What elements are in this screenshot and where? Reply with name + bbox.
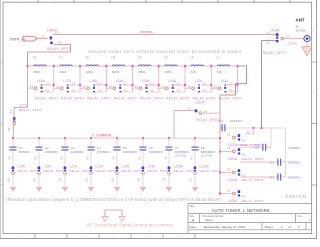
svg-text:RELAY_SPDT: RELAY_SPDT: [19, 108, 42, 112]
svg-text:Size: Size: [189, 215, 194, 218]
inductor L3 125N: [165, 65, 178, 66]
svg-text:56P,80DC: 56P,80DC: [288, 161, 301, 165]
wire cap to relay: [194, 151, 196, 167]
capacitor C6 150P,80DC: [140, 147, 147, 148]
wire bus to C5: [116, 138, 118, 146]
svg-text:3,6: 3,6: [82, 84, 86, 88]
ground for C3: [62, 187, 69, 192]
svg-text:3,6: 3,6: [161, 84, 165, 88]
wire relay throw bottom: [122, 91, 133, 93]
svg-text:D: D: [313, 29, 315, 33]
svg-text:RELAY_SPDT: RELAY_SPDT: [88, 96, 112, 100]
node junction 2: [79, 65, 81, 67]
svg-text:XG07CN: XG07CN: [285, 194, 306, 199]
wire monitor rail: [219, 95, 221, 138]
svg-text:RELAY_SPDT: RELAY_SPDT: [114, 96, 138, 100]
wire C_COMMON bus: [13, 137, 220, 139]
capacitor C11 56P,80DC: [240, 161, 277, 163]
wire cap to relay: [64, 151, 66, 167]
wire inductor chain top: [28, 65, 238, 67]
port XMTR_IN: [23, 36, 37, 41]
svg-text:RELAY_SPDT: RELAY_SPDT: [242, 178, 265, 182]
svg-text:RELAY_SPDT: RELAY_SPDT: [219, 96, 243, 100]
relay L23A select for C5: [116, 167, 119, 170]
wire ANT net vertical from output relay: [261, 41, 263, 129]
wire relay to inductor chain: [28, 45, 71, 67]
wire input to relay K17: [37, 38, 47, 40]
svg-text:C10: C10: [254, 146, 260, 150]
svg-text:Title: Title: [189, 204, 194, 208]
svg-text:4,5: 4,5: [87, 156, 90, 160]
svg-text:L323A: L323A: [228, 157, 238, 161]
wire bus to C8: [194, 138, 196, 146]
svg-text:<Doc>: <Doc>: [205, 218, 214, 222]
capacitor C10 47P,80DC: [240, 146, 262, 148]
node junction 5: [158, 65, 160, 67]
svg-text:L15A: L15A: [116, 79, 125, 83]
wire relay to bus: [12, 125, 14, 139]
svg-text:L325A: L325A: [228, 199, 238, 203]
wire output relay lower throw: [262, 40, 276, 42]
wire relay to ANT jack: [281, 37, 284, 40]
svg-text:4,5: 4,5: [266, 41, 270, 45]
wire relay throw bottom: [95, 91, 106, 93]
wire relay throw bottom: [174, 91, 185, 93]
svg-text:BYPASS: BYPASS: [141, 30, 153, 34]
svg-text:RELAY_SPDT: RELAY_SPDT: [47, 47, 71, 51]
svg-text:L1: L1: [216, 56, 220, 60]
node junction 4: [132, 65, 134, 67]
inductor L7 200N: [60, 65, 73, 66]
node junction 3: [105, 65, 107, 67]
wire relay to ground: [90, 174, 92, 187]
svg-text:L17A: L17A: [63, 79, 72, 83]
svg-text:SO-239: SO-239: [296, 28, 306, 32]
wire relay throw bottom: [148, 91, 159, 93]
zone tick marks left edge: [0, 61, 3, 63]
wire relay throw top: [95, 84, 106, 86]
relay L19A select for C1: [12, 167, 15, 170]
zone tick marks bottom edge: [34, 234, 36, 239]
svg-text:4,5: 4,5: [188, 107, 192, 111]
svg-text:4,5: 4,5: [35, 156, 38, 160]
svg-text:ANT: ANT: [296, 18, 305, 23]
svg-text:100P,80DC: 100P,80DC: [123, 150, 138, 154]
svg-text:250N: 250N: [138, 70, 145, 74]
svg-text:L103A: L103A: [270, 28, 280, 32]
wire bus to C4: [90, 138, 92, 146]
connector J1 ANT jack: [304, 36, 310, 42]
wire C13 to ANT net: [220, 127, 222, 129]
svg-text:C: C: [313, 90, 315, 94]
node bus junction C8: [194, 137, 196, 139]
wire rail lower: [219, 138, 221, 193]
wire bus to C6: [142, 138, 144, 146]
svg-text:3,6: 3,6: [86, 177, 89, 181]
svg-text:L16A: L16A: [90, 79, 99, 83]
svg-text:L22A: L22A: [96, 165, 104, 169]
svg-text:3,6: 3,6: [227, 134, 231, 137]
capacitor C7 330P,80DC: [166, 147, 173, 148]
wire junction drop 7: [210, 66, 212, 92]
svg-text:B: B: [313, 152, 315, 156]
inductor L8 400N: [34, 65, 47, 66]
svg-text:4,5: 4,5: [139, 156, 142, 160]
svg-text:3,6: 3,6: [164, 177, 167, 181]
wire C_COMMON riser to relay L210A: [173, 111, 175, 139]
svg-text:400N: 400N: [33, 70, 40, 74]
ground for C2: [36, 187, 43, 192]
wire relay throw bottom: [200, 91, 211, 93]
node junction 6: [184, 65, 186, 67]
svg-text:3,6: 3,6: [56, 84, 60, 88]
capacitor C1 5P,80DC: [10, 147, 17, 148]
wire junction drop 8: [237, 66, 239, 92]
node bus junction C3: [64, 137, 66, 139]
ground for C6: [140, 187, 147, 192]
svg-text:RELAY_SPDT: RELAY_SPDT: [148, 169, 169, 173]
wire relay to monitor rail: [202, 112, 220, 114]
relay L215A select for C7: [168, 167, 171, 170]
wire junction0 to relay L17A: [14, 66, 28, 117]
relay L216A select for C8: [194, 167, 197, 170]
wire junction drop 2: [79, 66, 81, 92]
node bus junction C7: [168, 137, 170, 139]
svg-text:3,6: 3,6: [227, 169, 231, 172]
wire junction drop 5: [158, 66, 160, 92]
ground for C4: [88, 187, 95, 192]
svg-text:4,5: 4,5: [61, 156, 64, 160]
svg-text:47P,80DC: 47P,80DC: [97, 150, 110, 154]
wire rail stub: [220, 172, 233, 174]
svg-text:C11: C11: [269, 160, 274, 164]
ground for C1: [10, 187, 17, 192]
svg-text:150P,80DC: 150P,80DC: [149, 150, 164, 154]
svg-text:(2 X 165): (2 X 165): [175, 154, 187, 158]
svg-text:C_COMMON: C_COMMON: [92, 134, 112, 138]
node junction 1: [53, 65, 55, 67]
wire relay throw top: [227, 84, 238, 86]
svg-text:RELAY_SPDT: RELAY_SPDT: [44, 169, 65, 173]
zone tick marks right edge: [312, 61, 317, 63]
svg-text:3,4: 3,4: [286, 35, 290, 39]
wire cap to relay: [12, 151, 14, 167]
wire junction8 to output section: [220, 66, 247, 95]
svg-text:4,5: 4,5: [191, 156, 194, 160]
wire junction drop 3: [105, 66, 107, 92]
svg-text:3,6: 3,6: [135, 84, 139, 88]
wire bus to C3: [64, 138, 66, 146]
svg-text:(COAX): (COAX): [288, 41, 298, 45]
svg-text:3,6: 3,6: [227, 148, 231, 151]
svg-text:RELAY_SPDT: RELAY_SPDT: [61, 96, 85, 100]
svg-text:12P,80DC: 12P,80DC: [45, 150, 58, 154]
wire junction drop 6: [184, 66, 186, 92]
svg-text:L6: L6: [85, 56, 89, 60]
svg-text:RELAY_SPDT: RELAY_SPDT: [140, 96, 164, 100]
svg-text:100N: 100N: [86, 70, 93, 74]
svg-text:3,6: 3,6: [112, 177, 115, 181]
relay L24A select for C6: [142, 167, 145, 170]
wire bus to C7: [168, 138, 170, 146]
wire cap to relay: [38, 151, 40, 167]
wire relay throw bottom: [227, 91, 238, 93]
wire relay throw top: [174, 84, 185, 86]
ground for C7: [166, 187, 173, 192]
svg-text:3,6: 3,6: [187, 84, 191, 88]
svg-text:(Residual capacitance between: (Residual capacitance between C_COMMON a…: [6, 197, 222, 202]
svg-text:3,6: 3,6: [227, 190, 231, 193]
svg-text:36P,80DC: 36P,80DC: [288, 176, 301, 180]
zone tick marks top edge: [37, 0, 39, 2]
wire relay to ground: [194, 174, 196, 187]
svg-text:RELAY_SPDT: RELAY_SPDT: [18, 169, 39, 173]
node bus junction C4: [90, 137, 92, 139]
svg-text:L20A: L20A: [44, 165, 52, 169]
svg-text:31N: 31N: [217, 70, 223, 74]
svg-text:L23A: L23A: [122, 165, 130, 169]
svg-text:L216A: L216A: [200, 165, 210, 169]
svg-text:Wednesday, January 27, 2010: Wednesday, January 27, 2010: [204, 225, 246, 229]
wire bus to C1: [12, 138, 14, 146]
svg-text:L324A: L324A: [228, 178, 238, 182]
inductor L2 62N: [191, 65, 204, 66]
svg-text:24P,80DC: 24P,80DC: [71, 150, 84, 154]
wire rail stub: [220, 193, 233, 195]
svg-text:3,6: 3,6: [108, 84, 112, 88]
svg-text:RELAY_SPDT: RELAY_SPDT: [174, 169, 195, 173]
wire cap to relay: [168, 151, 170, 167]
wire bus to C2: [38, 138, 40, 146]
svg-text:47P,80DC: 47P,80DC: [288, 146, 301, 150]
svg-text:AUTO TUNER, L NETWORK: AUTO TUNER, L NETWORK: [212, 208, 270, 213]
svg-text:L12A: L12A: [195, 79, 204, 83]
svg-text:L18A: L18A: [37, 79, 46, 83]
ground for C5: [114, 187, 121, 192]
svg-text:3,6: 3,6: [138, 177, 141, 181]
svg-text:1: 1: [281, 225, 283, 229]
node bus junction C1: [12, 137, 14, 139]
title block: [188, 204, 312, 234]
relay L20A select for C2: [38, 167, 41, 170]
wire relay to ground: [116, 174, 118, 187]
svg-text:C13: C13: [218, 119, 224, 123]
svg-text:200N: 200N: [59, 70, 66, 74]
wire relay to ground: [38, 174, 40, 187]
svg-text:L2: L2: [190, 56, 194, 60]
svg-text:of: of: [289, 225, 292, 229]
svg-text:500N: 500N: [112, 70, 119, 74]
svg-text:A: A: [313, 213, 315, 217]
wire relay throw top: [43, 84, 54, 86]
relay L21A select for C3: [64, 167, 67, 170]
capacitor C4 47P,80DC: [88, 147, 95, 148]
svg-text:L8: L8: [33, 56, 37, 60]
wire relay to ground: [64, 174, 66, 187]
wire relay throw top: [69, 84, 80, 86]
wire bypass net top: [53, 34, 278, 36]
wire relay to ground: [142, 174, 144, 187]
svg-text:(2 X 340): (2 X 340): [201, 154, 213, 158]
svg-text:3,6: 3,6: [190, 177, 193, 181]
svg-text:L215A: L215A: [174, 165, 184, 169]
wire junction drop 1: [53, 66, 55, 92]
svg-text:L17A: L17A: [19, 103, 28, 107]
svg-text:Date:: Date:: [189, 225, 197, 229]
wire junction drop 4: [132, 66, 134, 92]
node bus junction C5: [116, 137, 118, 139]
inductor L4 250N: [139, 65, 152, 66]
svg-text:4,5: 4,5: [10, 109, 13, 113]
svg-text:RELAY_SPDT: RELAY_SPDT: [196, 118, 220, 122]
sheet outer border: [0, 0, 1, 239]
svg-text:L24A: L24A: [148, 165, 156, 169]
svg-text:RELAY_SPDT: RELAY_SPDT: [242, 157, 265, 161]
svg-text:RELAY_SPDT: RELAY_SPDT: [263, 51, 287, 55]
wire cap to relay: [116, 151, 118, 167]
wire relay throw bottom: [43, 91, 54, 93]
svg-text:RELAY_SPDT: RELAY_SPDT: [242, 199, 265, 203]
svg-text:L5: L5: [111, 56, 115, 60]
svg-text:Rev: Rev: [298, 215, 303, 218]
capacitor C8 680P,80DC: [192, 147, 199, 148]
svg-text:XMTR_IN: XMTR_IN: [10, 37, 26, 41]
svg-text:62N: 62N: [191, 70, 197, 74]
svg-text:RELAY_SPDT: RELAY_SPDT: [242, 143, 265, 147]
svg-text:RELAY_SPDT: RELAY_SPDT: [166, 96, 190, 100]
svg-text:L14A: L14A: [142, 79, 151, 83]
wire relay throw top: [122, 84, 133, 86]
wire relay to ground: [168, 174, 170, 187]
ground for ANT shield: [306, 42, 308, 47]
node junction 0: [27, 65, 29, 67]
node bus junction C6: [142, 137, 144, 139]
svg-text:L21A: L21A: [70, 165, 78, 169]
wire C11/C12 right rail: [285, 128, 287, 177]
svg-text:3,6: 3,6: [213, 84, 217, 88]
svg-text:3,6: 3,6: [8, 127, 11, 131]
svg-text:5P,80DC: 5P,80DC: [19, 150, 30, 154]
svg-text:RELAY_SPDT: RELAY_SPDT: [96, 169, 117, 173]
svg-text:56P,80DC: 56P,80DC: [230, 119, 243, 123]
svg-text:125N: 125N: [164, 70, 171, 74]
capacitor C3 24P,80DC: [62, 147, 69, 148]
svg-text:4,5: 4,5: [165, 156, 168, 160]
capacitor C5 100P,80DC: [114, 147, 121, 148]
svg-text:3,6: 3,6: [60, 177, 63, 181]
svg-text:L210A: L210A: [195, 100, 205, 104]
inductor L6 100N: [86, 65, 99, 66]
svg-text:1: 1: [298, 225, 300, 229]
svg-text:RF Ground and Signal Ground ar: RF Ground and Signal Ground are common.: [87, 222, 174, 227]
node rail bus junction: [219, 137, 221, 139]
svg-text:C12: C12: [269, 175, 275, 179]
inductor L1 31N: [217, 65, 230, 66]
wire relay to ground: [12, 174, 14, 187]
node junction 8: [237, 65, 239, 67]
svg-text:L4: L4: [138, 56, 142, 60]
wire relay throw top: [200, 84, 211, 86]
svg-text:L11A: L11A: [221, 79, 229, 83]
svg-text:RELAY_SPDT: RELAY_SPDT: [70, 169, 91, 173]
node bus junction C2: [38, 137, 40, 139]
svg-text:Sheet: Sheet: [265, 225, 273, 229]
svg-text:1,7: 1,7: [247, 131, 251, 134]
svg-text:RELAY_SPDT: RELAY_SPDT: [200, 169, 221, 173]
svg-text:Inductor order here reflects i: Inductor order here reflects inductor or…: [88, 49, 243, 54]
wire cap to relay: [90, 151, 92, 167]
node ANT net junctions: [253, 127, 255, 129]
ground tie RF/signal: [105, 210, 122, 216]
svg-text:3,6: 3,6: [41, 35, 45, 39]
svg-text:3,6: 3,6: [8, 177, 11, 181]
svg-text:L13A: L13A: [168, 79, 177, 83]
svg-text:4,5: 4,5: [113, 156, 116, 160]
wire cap to relay: [142, 151, 144, 167]
wire rail stub: [220, 151, 233, 153]
svg-text:1,7: 1,7: [267, 31, 271, 35]
svg-text:3,6: 3,6: [34, 177, 37, 181]
node junction 7: [210, 65, 212, 67]
capacitor C2 12P,80DC: [36, 147, 43, 148]
relay L22A select for C4: [90, 167, 93, 170]
svg-text:L19A: L19A: [18, 165, 26, 169]
ground for C8: [192, 187, 199, 192]
svg-text:L3: L3: [164, 56, 168, 60]
svg-text:RELAY_SPDT: RELAY_SPDT: [122, 169, 143, 173]
inductor L5 500N: [112, 65, 125, 66]
svg-text:3,6: 3,6: [30, 84, 34, 88]
svg-text:RELAY_SPDT: RELAY_SPDT: [35, 96, 59, 100]
wire jog to relay L322A: [245, 128, 254, 134]
wire relay throw top: [148, 84, 159, 86]
capacitor C12 36P,80DC: [240, 176, 277, 178]
svg-text:4,5: 4,5: [9, 156, 12, 160]
svg-text:L7: L7: [59, 56, 63, 60]
wire relay throw bottom: [69, 91, 80, 93]
svg-text:L322A: L322A: [228, 143, 238, 147]
